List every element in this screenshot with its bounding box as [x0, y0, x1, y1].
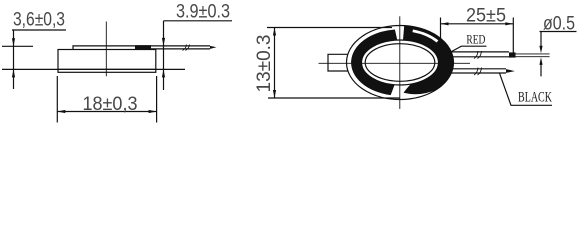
centerline horizontal [319, 62, 471, 64]
arrowhead up 13 [273, 28, 276, 36]
dim line 13 vertical [274, 28, 276, 99]
extension line top (ceramic top level) [2, 45, 33, 47]
svg-text:13±0.3: 13±0.3 [254, 35, 275, 93]
arrowhead down 3,6 [12, 38, 15, 46]
wire black tip [506, 69, 515, 73]
arrowhead left 25 [441, 22, 449, 25]
svg-text:3,6±0,3: 3,6±0,3 [13, 9, 65, 30]
solder blob [135, 45, 151, 49]
dim 18 extension line left [56, 76, 58, 123]
svg-text:18±0,3: 18±0,3 [83, 94, 138, 115]
wire (side view) bottom line [151, 48, 210, 50]
solder tab left [328, 54, 348, 71]
centerline vertical [399, 16, 401, 109]
leader RED [450, 46, 487, 52]
wire break symbol [183, 45, 190, 51]
svg-text:3.9±0.3: 3.9±0.3 [176, 1, 230, 22]
svg-text:RED: RED [466, 31, 485, 46]
dim 25 extension left [440, 18, 442, 49]
wire red tinned blob [509, 52, 516, 57]
dim line 3.9 vertical [163, 21, 165, 90]
dim line 18 [57, 111, 156, 113]
inner ellipse outline 2 [365, 44, 435, 82]
svg-text:BLACK: BLACK [518, 89, 552, 105]
dim 13 extension line top [267, 27, 392, 29]
disc body rect (side view) [58, 50, 156, 73]
wire tip [210, 46, 217, 49]
dim 13 extension line bottom [268, 97, 400, 99]
leader vertical ø0.5 [540, 32, 542, 48]
arrowhead right 25 [505, 22, 513, 25]
wire black insulation lines [450, 69, 506, 73]
arrowhead down 3.9 (at wire top) [162, 38, 165, 46]
leader underline ø0.5 [540, 31, 577, 33]
arrowhead down ø0.5 [539, 46, 542, 54]
ceramic top layer [73, 46, 150, 50]
dim 18 extension line right [156, 76, 158, 123]
wire red insulation lines [449, 52, 509, 57]
leader BLACK [500, 73, 553, 105]
arrowhead left 18 [57, 110, 65, 113]
wire black break [474, 68, 482, 76]
dim line 3,6 vertical [13, 30, 15, 89]
arrowhead right 18 [149, 110, 157, 113]
dim leader underline 3.9 [164, 20, 233, 22]
dim 25 extension right [512, 18, 514, 53]
dim leader underline 3,6 [12, 29, 66, 31]
black ring right blob [403, 26, 454, 95]
arrowhead down 13 [273, 90, 276, 98]
extension line bottom (disc inner bottom level) [2, 68, 185, 70]
centerline side view [105, 22, 107, 77]
black ring left arc [351, 30, 397, 96]
dim line 25 [441, 23, 514, 25]
wire (side view) top line [150, 45, 210, 47]
disc inner bottom line [58, 68, 156, 70]
inner ellipse outline 1 [362, 40, 439, 85]
white sliver highlight [413, 31, 438, 42]
arrowhead up 3.9 (at disc bottom ext) [162, 69, 165, 77]
wire red break [474, 51, 482, 59]
outer ellipse outline [347, 26, 454, 100]
arrowhead up 3,6 [12, 69, 15, 77]
arrowhead up ø0.5 [539, 57, 542, 65]
shaft below ø0.5 [540, 64, 542, 77]
wire red bare lines [516, 54, 550, 57]
